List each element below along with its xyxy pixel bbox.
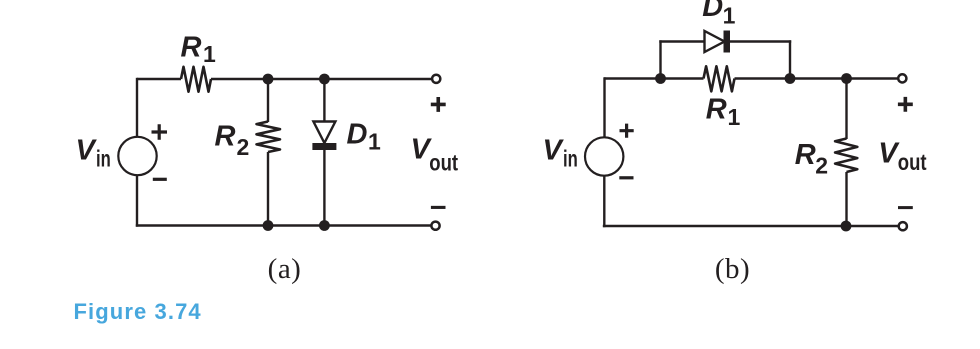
junction top R2 (a) (263, 74, 274, 85)
label R1 (b) (706, 94, 741, 131)
resistor R2 (a) zigzag (257, 122, 281, 153)
svg-text:1: 1 (723, 3, 736, 29)
wire R2 branch upper (a) (267, 79, 269, 122)
svg-text:R: R (795, 139, 816, 171)
junction top D1 (a) (319, 74, 330, 85)
svg-text:out: out (898, 149, 927, 175)
svg-text:D: D (347, 119, 368, 151)
resistor R2 (b) zigzag (835, 139, 857, 173)
svg-text:in: in (563, 145, 578, 171)
plus sign at source (b) (620, 124, 634, 138)
junction bottom R2 (b) (841, 221, 852, 232)
svg-text:1: 1 (728, 104, 741, 130)
wire diode loop top-right (b) (730, 40, 791, 42)
wire top-left segment (b) (604, 77, 704, 79)
wire R2 branch upper (b) (845, 79, 847, 140)
voltage source Vin (a) (118, 137, 156, 175)
junction bottom R2 (a) (263, 220, 274, 231)
wire bottom (a) (136, 224, 431, 226)
minus sign at output (b) (898, 206, 913, 209)
svg-text:(a): (a) (268, 253, 302, 285)
label R1 (a) (181, 31, 217, 67)
svg-text:R: R (181, 31, 202, 63)
wire Vin rail upper (b) (603, 77, 605, 137)
output terminal plus (a) (432, 75, 440, 83)
svg-text:R: R (706, 94, 727, 126)
label Vin (b) (543, 134, 578, 171)
label Vout (a) (411, 134, 459, 176)
diode D1 (a) cathode bar (312, 143, 336, 150)
diode D1 (b) cathode bar (724, 31, 731, 53)
output terminal minus (b) (899, 222, 907, 230)
resistor R1 (b) zigzag (704, 66, 735, 91)
wire bottom (b) (603, 225, 898, 227)
wire left rail upper (a) (136, 78, 138, 137)
svg-text:D: D (702, 0, 723, 23)
svg-text:R: R (215, 121, 236, 153)
svg-text:V: V (543, 134, 565, 166)
svg-text:1: 1 (368, 129, 381, 155)
diode D1 (a) triangle (313, 122, 335, 144)
svg-text:in: in (96, 145, 111, 171)
resistor R1 (a) zigzag (181, 67, 211, 92)
plus sign at output (a) (431, 97, 446, 112)
svg-text:V: V (76, 134, 98, 166)
svg-text:1: 1 (203, 41, 216, 67)
minus sign at source (b) (619, 176, 633, 179)
label Vin (a) (76, 134, 111, 171)
caption (b) (715, 253, 750, 285)
label D1 (b) (702, 0, 735, 29)
junction top R2 (b) (841, 73, 852, 84)
figure caption (74, 299, 202, 324)
wire diode loop top-left (b) (659, 40, 705, 42)
wire Vin rail lower (b) (603, 176, 605, 227)
plus sign at output (b) (898, 97, 913, 112)
output terminal plus (b) (898, 74, 906, 82)
label Vout (b) (878, 137, 927, 174)
label R2 (a) (215, 121, 250, 160)
wire riser right of diode loop (b) (789, 40, 791, 78)
voltage source Vin (b) (585, 137, 623, 175)
wire R2 branch lower (b) (845, 172, 847, 226)
label R2 (b) (795, 139, 828, 179)
diode D1 (b) triangle (705, 31, 725, 52)
output terminal minus (a) (431, 222, 439, 230)
wire left rail lower (a) (136, 176, 138, 227)
junction right of diode loop (b) (785, 73, 796, 84)
minus sign at output (a) (431, 206, 446, 209)
svg-text:2: 2 (237, 134, 250, 160)
wire riser left of diode loop (b) (659, 40, 661, 78)
wire D1 branch lower (a) (323, 150, 325, 226)
caption (a) (268, 253, 302, 285)
label D1 (a) (347, 119, 382, 155)
minus sign at source (a) (153, 178, 167, 181)
wire R2 branch lower (a) (267, 152, 269, 226)
wire top-left segment (a) (137, 78, 181, 80)
svg-text:2: 2 (815, 153, 828, 179)
wire top-right segment (b) (735, 77, 898, 79)
junction left of diode loop (b) (655, 73, 666, 84)
svg-text:Figure 3.74: Figure 3.74 (74, 299, 202, 324)
wire top-right segment (a) (211, 78, 431, 80)
svg-text:out: out (429, 150, 458, 176)
wire D1 branch upper (a) (323, 79, 325, 123)
svg-text:(b): (b) (715, 253, 750, 285)
junction bottom D1 (a) (319, 220, 330, 231)
plus sign at source (a) (152, 124, 168, 140)
